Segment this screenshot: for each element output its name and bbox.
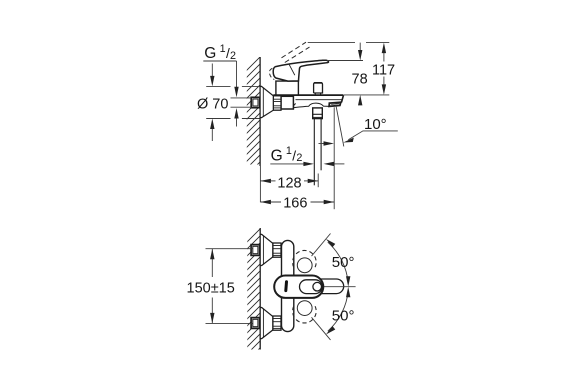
escutcheon cone (top view): [260, 86, 273, 117]
wall face line (front view): [259, 228, 261, 350]
lower supply square: [251, 318, 260, 329]
svg-text:128: 128: [277, 175, 301, 191]
body top line: [273, 94, 343, 96]
svg-text:50°: 50°: [332, 307, 355, 324]
50 deg radial line (down): [312, 317, 331, 340]
diverter knob: [314, 83, 323, 95]
nipple extension line upper: [231, 97, 252, 99]
50 deg radial line (up): [312, 234, 331, 257]
150 extension line bottom: [206, 322, 253, 324]
svg-text:150±15: 150±15: [187, 280, 235, 296]
spout front edge: [341, 95, 344, 102]
water stream vertical reference / 166 extension: [333, 107, 335, 209]
handle centerline: [322, 286, 356, 288]
cartridge box under lever: [276, 81, 299, 95]
water stream 10 deg line: [336, 105, 344, 146]
svg-text:Ø 70: Ø 70: [197, 97, 228, 113]
svg-text:166: 166: [283, 196, 307, 212]
inner capsule detail: [300, 280, 323, 294]
inner circle: [313, 282, 322, 291]
upper supply square: [251, 245, 260, 256]
lower escutcheon: [260, 308, 273, 339]
rotated inner end circle (down): [297, 301, 312, 316]
shower hose lines: [313, 119, 315, 186]
svg-text:117: 117: [372, 62, 395, 78]
upper connection nut: [273, 243, 281, 257]
handle tick mark: [284, 282, 288, 291]
extension line from lever top (78): [327, 60, 363, 62]
dashed rotated handle (down 50): [293, 306, 317, 323]
wall extension line down to 166 dimension: [259, 166, 261, 202]
50 deg arc (up): [328, 242, 348, 283]
G1/2 leader drop with arrow to nipple: [236, 61, 238, 88]
hose centre extension line (128): [317, 174, 319, 188]
nipple extension line lower: [231, 106, 252, 108]
50 deg arc (down): [328, 290, 348, 331]
extension line from raised lever top (117): [308, 42, 355, 44]
dashed rotated handle (up 50): [293, 250, 317, 267]
rotated inner end circle (up): [297, 258, 312, 273]
G1/2 label underline / leader: [203, 60, 236, 62]
shower outlet nipple: [313, 108, 323, 119]
faucet body capsule: [282, 240, 294, 331]
D70 extension line top: [206, 85, 230, 87]
lever raised position (dashed): [282, 42, 310, 62]
lower connection nut: [273, 316, 281, 330]
connection nut (top view): [273, 96, 281, 110]
svg-text:10°: 10°: [364, 116, 387, 133]
wall hatching (top view): [243, 54, 263, 179]
handle grip extension: [320, 279, 344, 294]
svg-text:50°: 50°: [332, 254, 355, 271]
10 deg leader line: [348, 131, 398, 140]
svg-text:78: 78: [352, 71, 368, 87]
extension line from spout bottom: [344, 94, 389, 96]
lever inner edge: [289, 65, 295, 76]
D70 extension line bottom: [206, 118, 230, 120]
upper escutcheon: [260, 234, 273, 265]
lever handle capsule (front view): [274, 276, 323, 298]
S-union sleeve: [281, 96, 293, 109]
supply nipple square (top view): [251, 97, 260, 107]
wall face line (top view): [259, 57, 261, 166]
aerator (10 deg tilted): [329, 102, 341, 106]
lever handle (rest position): [273, 60, 328, 81]
150 extension line top: [206, 248, 253, 250]
body inner line: [296, 99, 343, 101]
wall hatching (front view): [244, 225, 264, 364]
body underside profile: [294, 103, 330, 108]
